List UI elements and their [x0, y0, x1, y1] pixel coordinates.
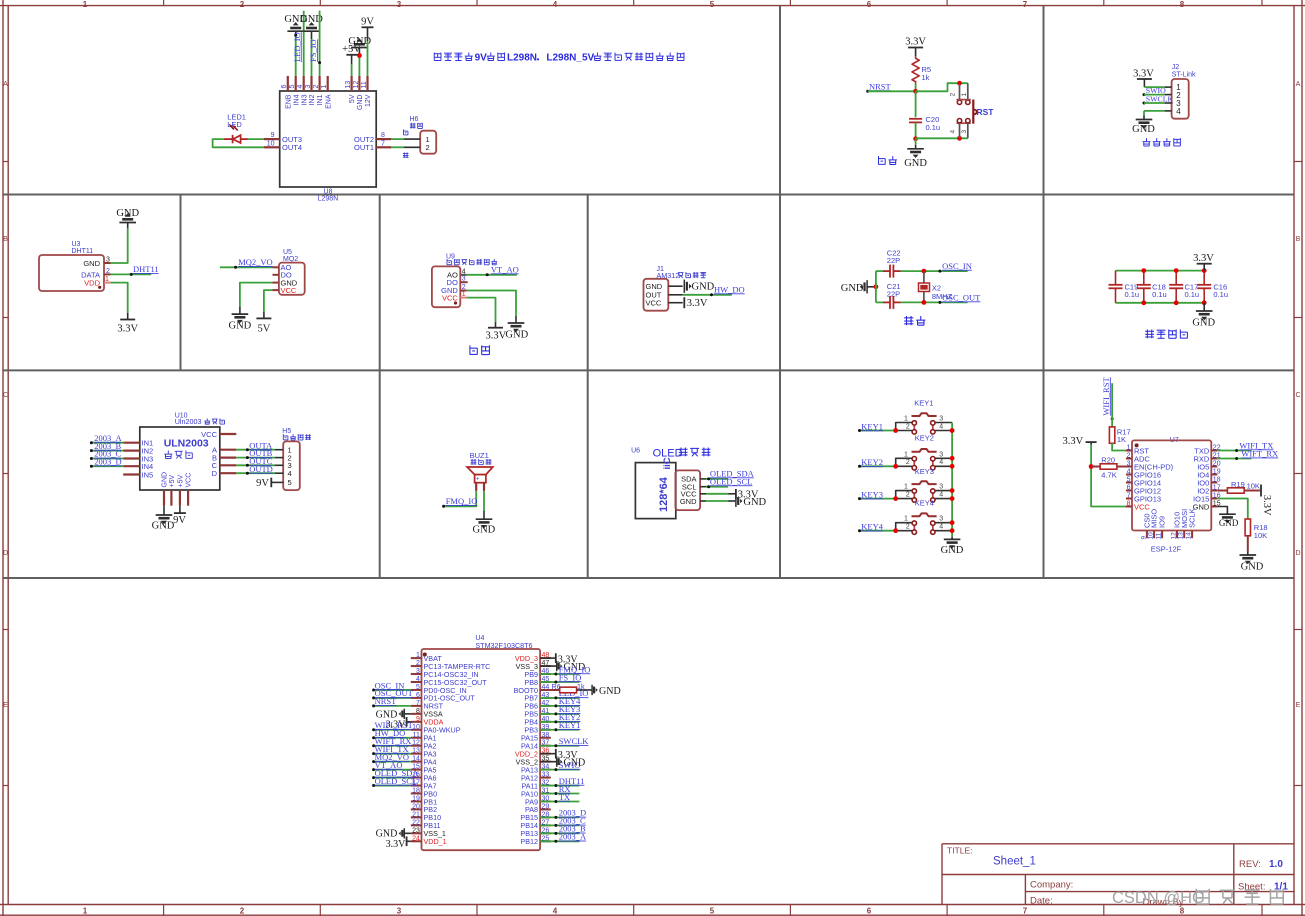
svg-text:4: 4: [297, 85, 304, 89]
svg-text:3.3V: 3.3V: [485, 331, 506, 342]
svg-text:13: 13: [345, 81, 352, 89]
ground R18: [1240, 555, 1264, 573]
svg-text:RST: RST: [977, 107, 995, 117]
J2 pin lines: [1165, 87, 1172, 111]
wire IN3 LED_IO: [303, 11, 305, 76]
power 3.3V filter: [1193, 253, 1214, 271]
wire U3 DATA: [111, 273, 152, 276]
svg-text:10: 10: [412, 724, 420, 731]
ground U3: [116, 208, 139, 223]
svg-text:0.1u: 0.1u: [1213, 290, 1228, 299]
svg-text:12: 12: [1170, 532, 1177, 540]
ground U10: [152, 515, 175, 531]
mcu U4 STM32F103C8T6 body: [422, 635, 541, 850]
U7 bottom pins: [1140, 508, 1196, 539]
net label WIFI_RST: [1101, 377, 1114, 421]
svg-text:ENB: ENB: [285, 94, 292, 109]
svg-text:GND: GND: [692, 282, 715, 293]
svg-text:GND: GND: [152, 520, 175, 531]
svg-text:3: 3: [397, 907, 402, 916]
wire OUTC: [236, 464, 275, 467]
wire U5 GND: [240, 283, 273, 315]
H5 pin lines: [271, 450, 283, 483]
wire U4 pin27 2003_C: [540, 824, 579, 827]
wire C20 to node2: [915, 122, 917, 138]
svg-text:GND: GND: [229, 321, 252, 332]
svg-text:OLED_SCL: OLED_SCL: [375, 776, 418, 786]
svg-text:VCC: VCC: [281, 286, 297, 295]
svg-text:3.3V: 3.3V: [386, 720, 407, 731]
svg-text:NRST: NRST: [869, 81, 892, 91]
net label HW_DO U4: [375, 728, 406, 738]
power 3.3V J1: [684, 297, 708, 309]
svg-text:3.3V: 3.3V: [386, 839, 407, 850]
wire U3 GND: [111, 223, 128, 264]
svg-text:OUT4: OUT4: [282, 143, 302, 152]
svg-text:L298N: L298N: [507, 53, 537, 64]
svg-text:+: +: [476, 477, 480, 483]
svg-text:+5V: +5V: [178, 475, 185, 488]
net label KEY1 U4r: [559, 720, 581, 730]
note 电源适配9V接入L298N，L298N_5V输出给其他模块供电: [434, 53, 684, 64]
wire IN2 2003_B: [90, 449, 123, 452]
svg-text:4: 4: [288, 469, 292, 478]
label 红: [403, 152, 409, 158]
ground filter: [1192, 303, 1215, 329]
J1 pin lines: [668, 286, 682, 303]
svg-text:4: 4: [949, 130, 956, 134]
net label 2003_D U4r: [559, 808, 586, 818]
connector H6 body: [420, 131, 436, 154]
svg-text:2003_A: 2003_A: [559, 832, 587, 842]
section divider lines: [3, 6, 1294, 578]
svg-text:3.3V: 3.3V: [117, 324, 138, 335]
svg-text:D: D: [1295, 550, 1300, 557]
svg-text:GND: GND: [1241, 562, 1264, 573]
wire C22 to OSC_IN: [901, 269, 968, 274]
wire OUT2 to H6: [391, 138, 404, 140]
wire node2 to GND: [915, 139, 917, 149]
svg-text:ENA: ENA: [325, 94, 332, 109]
wire U4 pin5 OSC_IN: [372, 688, 411, 691]
push button RST: [949, 83, 976, 138]
svg-text:38: 38: [542, 732, 550, 739]
label 晶振: [904, 316, 925, 325]
net label SWCLK: [1143, 95, 1174, 105]
svg-text:VCC: VCC: [442, 293, 458, 302]
svg-text:1.0: 1.0: [1269, 859, 1283, 870]
svg-text:R20: R20: [1101, 456, 1115, 465]
net label KEY2: [861, 457, 883, 467]
svg-text:22P: 22P: [887, 256, 900, 265]
power 3.3V U7: [1062, 436, 1096, 447]
svg-text:2: 2: [106, 268, 110, 275]
button KEY4 refdes: [915, 499, 934, 508]
wire U4 pin25 2003_A: [540, 840, 579, 843]
svg-text:FS_IO: FS_IO: [308, 39, 318, 62]
wire OLED VCC: [706, 493, 735, 495]
svg-text:18: 18: [412, 788, 420, 795]
svg-text:7: 7: [1023, 907, 1028, 916]
svg-text:9: 9: [1140, 536, 1147, 540]
svg-text:Uln2003: Uln2003: [175, 417, 202, 426]
svg-text:24: 24: [412, 835, 420, 842]
svg-text:U6: U6: [631, 448, 640, 455]
OLED rotated text 128*64: [658, 476, 670, 512]
svg-text:10K: 10K: [1247, 481, 1260, 490]
svg-text:4: 4: [462, 268, 466, 275]
wire U10 9V: [179, 506, 181, 513]
svg-text:1K: 1K: [1117, 435, 1126, 444]
svg-text:NRST: NRST: [375, 696, 398, 706]
svg-text:13: 13: [412, 748, 420, 755]
svg-text:4: 4: [939, 491, 943, 498]
svg-text:VT_AO: VT_AO: [491, 264, 519, 274]
LED1 diode symbol: [224, 124, 248, 143]
wire stlink pin2 SWIO: [1144, 94, 1165, 96]
svg-text:6: 6: [867, 0, 872, 9]
wire U4 pin37 SWCLK: [540, 744, 579, 747]
capacitor C16 0.1u: [1197, 271, 1228, 303]
svg-text:GND: GND: [680, 497, 697, 506]
svg-text:11: 11: [413, 732, 420, 739]
svg-text:KEY3: KEY3: [861, 490, 883, 500]
svg-text:22: 22: [412, 819, 420, 826]
svg-text:KEY4: KEY4: [861, 522, 883, 532]
svg-text:12: 12: [412, 740, 420, 747]
svg-text:D: D: [3, 550, 8, 557]
U4 left pins 1-24: [411, 652, 491, 846]
net label VT_AO: [491, 264, 519, 274]
svg-text:7: 7: [1127, 493, 1131, 500]
svg-text:20: 20: [1213, 461, 1221, 468]
svg-text:5V: 5V: [257, 324, 270, 335]
LED1 labels: [227, 113, 246, 130]
wire RXD WIFT_RX: [1217, 457, 1251, 460]
net label 2003_D: [94, 456, 121, 466]
wire U4 pin46 FMQ_IO: [540, 673, 579, 676]
net label OLED_SCL U4: [375, 776, 418, 786]
wire TXD WIFI_TX: [1217, 449, 1251, 452]
svg-text:L298N_5V: L298N_5V: [546, 53, 594, 64]
svg-text:1: 1: [904, 451, 908, 458]
svg-text:5: 5: [710, 0, 715, 9]
svg-text:GND: GND: [116, 208, 139, 219]
connector J2 ST-Link: [1172, 64, 1196, 119]
net label KEY3 U4r: [559, 704, 581, 714]
svg-text:7: 7: [416, 700, 420, 707]
net label 2003_A U4r: [559, 832, 587, 842]
svg-text:IO9: IO9: [1158, 516, 1167, 528]
power 3.3V stlink: [1133, 68, 1154, 87]
svg-text:1: 1: [105, 276, 109, 283]
wire IN4 to GND: [294, 31, 297, 76]
U10 IN pins: [123, 439, 153, 480]
svg-text:GND: GND: [564, 757, 586, 768]
svg-text:B: B: [3, 236, 8, 243]
wire U5 AO MQ2_VO: [220, 266, 273, 269]
svg-text:5: 5: [1127, 477, 1131, 484]
net label OLED_SCL: [710, 476, 753, 486]
wire R17 to RST: [1112, 443, 1126, 450]
wire R6 to gnd: [577, 689, 593, 691]
wire U4 VSSA: [404, 713, 411, 715]
U10 VCC pin: [201, 430, 236, 439]
junction node2: [913, 136, 918, 141]
wire J1 OUT HW_DO: [683, 293, 732, 296]
svg-text:12: 12: [353, 81, 360, 89]
svg-text:4: 4: [553, 0, 558, 9]
svg-text:3: 3: [1127, 461, 1131, 468]
U7 right pins: [1193, 445, 1221, 512]
svg-text:U5: U5: [283, 249, 292, 256]
wire R18 to gnd: [1247, 536, 1249, 555]
net label KEY1: [861, 421, 883, 431]
wire U4 pin14 MQ2_VO: [372, 760, 411, 763]
label 滤波电容: [1145, 330, 1187, 339]
svg-text:4: 4: [553, 907, 558, 916]
svg-text:12V: 12V: [365, 94, 372, 107]
ground stlink: [1132, 120, 1155, 136]
wire U9 GND: [467, 291, 516, 324]
sensor U3 DHT11 body: [39, 241, 104, 291]
svg-text:GND: GND: [743, 497, 766, 508]
net label FMQ_IO: [446, 496, 478, 506]
wire U4 pin7 NRST: [372, 704, 411, 707]
capacitor C20 0.1u: [909, 115, 940, 132]
net label FS_IO U4r: [559, 672, 582, 682]
svg-text:2: 2: [416, 660, 420, 667]
sensor U5 MQ2 body: [279, 249, 305, 295]
wire U4 pin17 OLED_SCL: [372, 784, 411, 787]
wire IN2 to GND: [311, 31, 313, 76]
svg-text:Sheet_1: Sheet_1: [993, 856, 1036, 868]
OLED rotated text iiC: [662, 457, 673, 469]
svg-text:VDD: VDD: [84, 279, 100, 288]
wire U10 GND: [163, 506, 165, 515]
svg-text:1: 1: [904, 484, 908, 491]
svg-text:21: 21: [412, 811, 420, 818]
label 复位: [878, 156, 896, 164]
ground reset: [904, 149, 927, 169]
wire U4 VSS_1: [404, 832, 411, 834]
OLED pin names: [680, 475, 697, 506]
wire node to C20: [915, 91, 917, 117]
svg-text:14: 14: [1186, 532, 1193, 540]
svg-text:3: 3: [106, 257, 110, 264]
svg-text:TITLE:: TITLE:: [947, 846, 973, 856]
svg-text:J2: J2: [1172, 64, 1180, 71]
svg-text:U8: U8: [323, 188, 332, 195]
svg-text:1k: 1k: [922, 73, 930, 82]
U7 left pins: [1126, 445, 1174, 512]
label 下载接口: [1143, 138, 1181, 146]
svg-text:GND: GND: [162, 472, 169, 488]
svg-text:IN2: IN2: [309, 94, 316, 105]
wire U4 pin30 TX: [540, 800, 579, 803]
power 3.3V U3: [117, 320, 138, 335]
svg-text:VCC: VCC: [646, 298, 662, 307]
net label WIFI_TX: [1239, 440, 1273, 450]
U4 right pins 48-25: [514, 652, 551, 846]
net label OUTA: [249, 440, 273, 450]
net label 2003_C: [94, 449, 121, 459]
svg-text:2: 2: [906, 459, 910, 466]
svg-text:2: 2: [906, 491, 910, 498]
svg-text:1: 1: [1127, 445, 1131, 452]
svg-text:3: 3: [416, 668, 420, 675]
svg-text:2: 2: [240, 0, 245, 9]
wire U4 pin32 DHT11: [540, 784, 579, 787]
net label OSC_IN U4: [375, 680, 405, 690]
svg-text:0.1u: 0.1u: [1185, 290, 1200, 299]
svg-text:4: 4: [939, 524, 943, 531]
net label DHT11 U4r: [559, 776, 585, 786]
buzzer BUZ1 labels: [470, 451, 492, 465]
svg-text:HW_DO: HW_DO: [714, 284, 745, 294]
button KEY3 refdes: [915, 467, 934, 476]
net label OUTC: [249, 456, 272, 466]
svg-text:E: E: [3, 702, 8, 709]
wire U4 VSS_2: [540, 761, 557, 763]
power 5V U5: [256, 318, 271, 334]
svg-text:2: 2: [906, 524, 910, 531]
wire U4 VDD_1: [407, 840, 411, 842]
svg-text:GND: GND: [941, 545, 964, 556]
svg-text:D: D: [212, 469, 218, 478]
wire net KEY4: [858, 528, 898, 533]
svg-text:R19: R19: [1231, 480, 1245, 489]
U5 pin names: [281, 263, 298, 295]
svg-text:4: 4: [939, 423, 943, 430]
resistor R17 1K: [1109, 427, 1130, 444]
capacitor C21 22P: [883, 282, 901, 309]
wire U9 VCC: [467, 298, 496, 328]
svg-text:5: 5: [710, 907, 715, 916]
U8 side pins OUT1-OUT4: [264, 132, 391, 152]
ground OLED: [736, 495, 767, 508]
net label OUTB: [249, 448, 272, 458]
svg-text:H6: H6: [410, 116, 419, 123]
svg-text:iiC: iiC: [662, 457, 673, 469]
svg-text:OUTD: OUTD: [249, 464, 273, 474]
svg-text:A: A: [3, 81, 8, 88]
wire U4 VDDA: [407, 721, 411, 723]
wire U4 pin13 WIFI_TX: [372, 752, 411, 755]
power 9V H5: [256, 478, 271, 489]
svg-text:MQ2_VO: MQ2_VO: [238, 257, 272, 267]
svg-text:IN5: IN5: [142, 470, 154, 479]
net label OLED_SDA: [710, 468, 755, 478]
capacitor C19 0.1u: [1109, 271, 1140, 303]
svg-text:C: C: [1295, 392, 1300, 399]
svg-text:H5: H5: [282, 428, 291, 435]
power 3.3V reset: [905, 36, 926, 56]
svg-text:23: 23: [412, 827, 420, 834]
svg-text:OSC_OUT: OSC_OUT: [942, 292, 981, 302]
wire OUTB: [236, 456, 275, 459]
svg-text:C: C: [3, 392, 8, 399]
wire net KEY1: [858, 428, 898, 433]
wire NRST: [868, 90, 916, 92]
svg-text:KEY2: KEY2: [861, 457, 883, 467]
svg-text:6: 6: [416, 692, 420, 699]
ground U4 VSS_1: [376, 828, 405, 840]
U8 top pins 6,5,4,3,2,1,13,12,11: [281, 76, 372, 110]
wire net KEY2: [858, 464, 898, 469]
net label VT_AO U4: [375, 760, 403, 770]
resistor R18 10K: [1245, 519, 1267, 540]
svg-text:3: 3: [305, 85, 312, 89]
net label WIFI_TX U4: [375, 744, 409, 754]
net label 2003_A: [94, 433, 122, 443]
wire U4 pin43 LED_IO: [540, 696, 579, 699]
svg-text:GND: GND: [473, 525, 496, 536]
wire OUTD: [236, 472, 275, 475]
H6 pin lines: [404, 139, 420, 147]
svg-text:GND: GND: [1132, 124, 1155, 135]
junction node NRST: [913, 89, 918, 94]
svg-text:19: 19: [1213, 469, 1221, 476]
power 3.3V VDDA: [386, 717, 407, 731]
svg-text:3.3V: 3.3V: [1062, 436, 1083, 447]
svg-text:VCC: VCC: [201, 430, 217, 439]
wire IN1 2003_A: [90, 441, 123, 444]
svg-text:3.3V: 3.3V: [905, 36, 926, 47]
svg-text:GND: GND: [1219, 518, 1239, 528]
wire node2 to RST button bottom: [916, 136, 968, 141]
label 黑: [403, 129, 407, 135]
wire U4 pin42 KEY4: [540, 704, 579, 707]
wire U3 VDD: [111, 283, 128, 320]
svg-text:18: 18: [1213, 477, 1221, 484]
svg-text:SWCLK: SWCLK: [559, 736, 590, 746]
svg-text:IN3: IN3: [301, 94, 308, 105]
svg-text:WIFT_RX: WIFT_RX: [1241, 449, 1278, 459]
net label WIFT_RX: [1241, 449, 1278, 459]
wire stlink pin1: [1144, 86, 1164, 88]
wire U4 pin39 KEY1: [540, 728, 579, 731]
crystal X2 8MHZ: [919, 271, 953, 302]
wire U4 pin28 2003_D: [540, 816, 579, 819]
svg-text:GND: GND: [376, 709, 398, 720]
U10 out pin B: [212, 453, 236, 462]
svg-text:9V: 9V: [173, 515, 186, 526]
chip U10 ULN2003 body: [140, 413, 225, 490]
ground at IN4: [284, 14, 307, 31]
svg-text:PB12: PB12: [520, 837, 538, 846]
svg-text:7: 7: [381, 140, 385, 147]
title block: [942, 844, 1294, 908]
wire U4 pin6 OSC_OUT: [372, 696, 411, 699]
net label DHT11: [133, 264, 159, 274]
wire IN1 FS_IO: [318, 11, 321, 76]
wire crystal left rail: [875, 271, 877, 302]
wire OLED SCL: [706, 485, 728, 488]
svg-text:7: 7: [1023, 0, 1028, 9]
ground BUZ1: [473, 519, 496, 535]
wire U4 VSS_3: [540, 665, 557, 667]
wire stlink pin4 gnd: [1144, 111, 1165, 120]
resistor R6 1k: [552, 682, 585, 693]
svg-text:9V: 9V: [475, 53, 488, 64]
wire OUTA: [236, 448, 275, 451]
module U7 ESP-12F body: [1132, 437, 1211, 554]
svg-text:3.3V: 3.3V: [1261, 495, 1272, 516]
U10 out pin D: [212, 469, 237, 478]
svg-text:E: E: [1296, 702, 1301, 709]
svg-text:U3: U3: [72, 241, 81, 248]
